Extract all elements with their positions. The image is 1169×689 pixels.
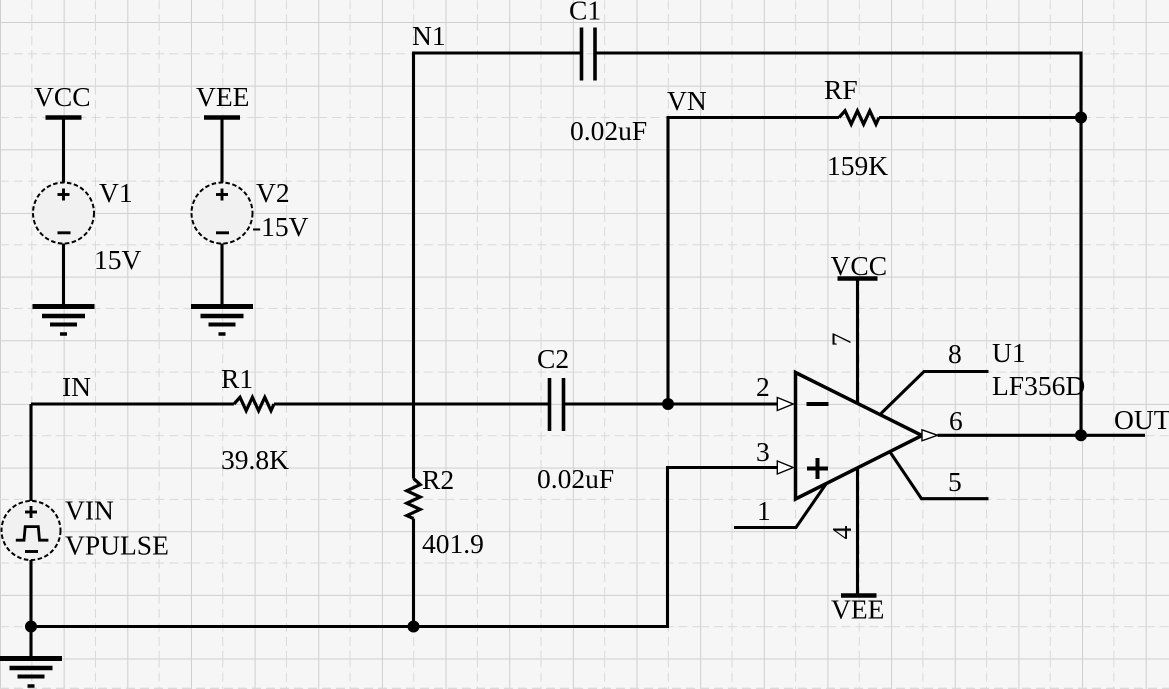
svg-text:RF: RF (824, 74, 858, 105)
svg-text:C2: C2 (537, 343, 569, 374)
svg-text:159K: 159K (827, 150, 888, 181)
svg-text:VPULSE: VPULSE (65, 530, 169, 561)
svg-text:V1: V1 (99, 177, 133, 208)
svg-text:15V: 15V (94, 244, 142, 275)
svg-text:V2: V2 (256, 177, 290, 208)
svg-text:R2: R2 (422, 464, 454, 495)
svg-text:0.02uF: 0.02uF (537, 463, 614, 494)
svg-text:VIN: VIN (65, 495, 114, 526)
svg-text:6: 6 (949, 405, 963, 436)
svg-text:3: 3 (756, 436, 770, 467)
svg-text:-15V: -15V (252, 211, 309, 242)
svg-text:4: 4 (826, 525, 857, 539)
svg-text:0.02uF: 0.02uF (570, 115, 647, 146)
svg-text:401.9: 401.9 (422, 528, 484, 559)
svg-text:VCC: VCC (34, 81, 91, 112)
svg-text:U1: U1 (992, 337, 1026, 368)
svg-text:VEE: VEE (831, 594, 884, 625)
svg-text:OUT: OUT (1114, 404, 1169, 435)
svg-text:1: 1 (757, 495, 771, 526)
svg-text:39.8K: 39.8K (221, 444, 289, 475)
svg-text:VN: VN (667, 85, 707, 116)
svg-text:N1: N1 (412, 20, 446, 51)
svg-text:R1: R1 (221, 363, 253, 394)
svg-text:8: 8 (948, 338, 962, 369)
svg-text:LF356D: LF356D (992, 370, 1085, 401)
svg-text:IN: IN (62, 371, 91, 402)
svg-text:VEE: VEE (196, 81, 249, 112)
svg-text:C1: C1 (569, 0, 601, 26)
svg-text:VCC: VCC (831, 250, 888, 281)
svg-text:2: 2 (756, 371, 770, 402)
svg-text:7: 7 (826, 333, 857, 347)
svg-text:5: 5 (948, 466, 962, 497)
